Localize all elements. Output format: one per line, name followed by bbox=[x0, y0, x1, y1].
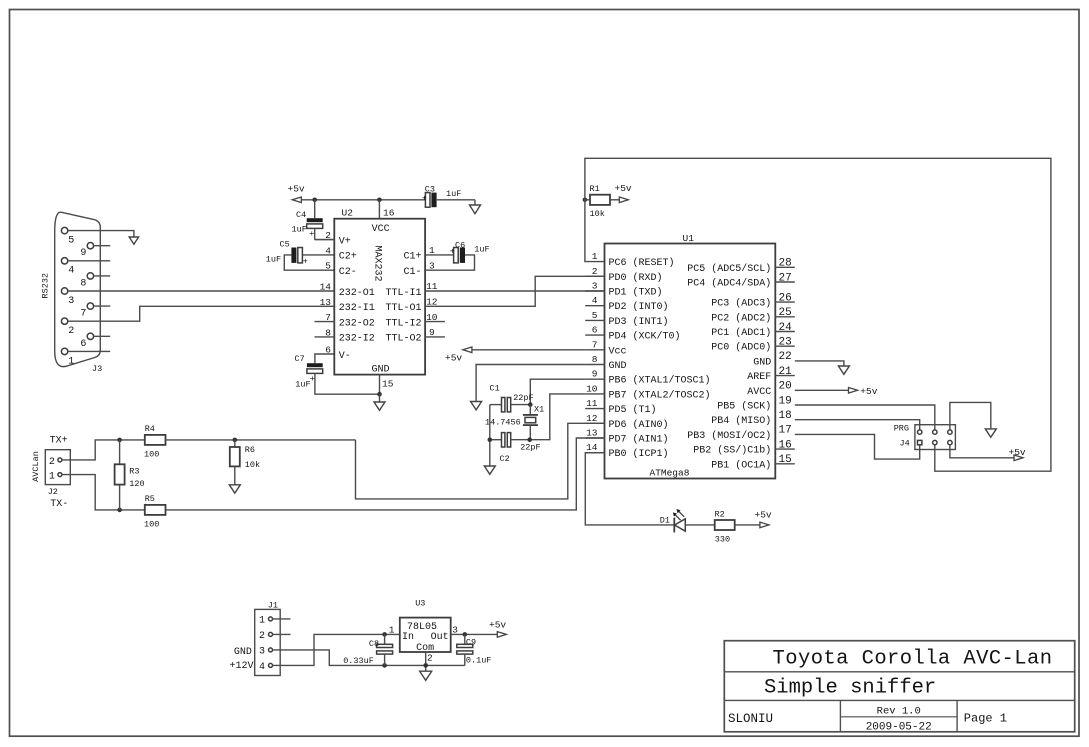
resistor R5 100 bbox=[144, 494, 166, 529]
svg-text:25: 25 bbox=[779, 307, 792, 319]
wire J1 pin2 stub bbox=[273, 633, 291, 635]
svg-text:Page 1: Page 1 bbox=[964, 712, 1007, 726]
capacitor C7 1uF bbox=[295, 354, 380, 394]
svg-text:26: 26 bbox=[779, 292, 792, 304]
svg-text:1: 1 bbox=[68, 356, 74, 367]
svg-text:PB4 (MISO): PB4 (MISO) bbox=[711, 415, 771, 427]
wire J3 pin4 stub bbox=[68, 260, 110, 262]
wire RESET net: U1 pin1 up over top and down right side to J4 bbox=[585, 158, 1051, 471]
svg-text:16: 16 bbox=[383, 208, 395, 219]
svg-text:Rev 1.0: Rev 1.0 bbox=[877, 705, 921, 717]
svg-text:23: 23 bbox=[779, 337, 792, 349]
svg-text:8: 8 bbox=[592, 354, 598, 365]
svg-text:2: 2 bbox=[259, 631, 265, 642]
svg-text:1uF: 1uF bbox=[446, 189, 461, 199]
resistor R3 120 bbox=[115, 440, 145, 510]
wire U1 PB6 to crystal node bbox=[530, 379, 585, 404]
capacitor C4 1uF bbox=[292, 200, 323, 240]
wire U1 AVCC pin20 to +5v bbox=[795, 389, 849, 391]
svg-text:1: 1 bbox=[592, 251, 598, 262]
svg-text:+12V: +12V bbox=[230, 661, 254, 672]
ground bbox=[374, 402, 385, 410]
capacitor C6 1uF with loop to pins C1+/C1- bbox=[425, 241, 490, 271]
capacitor C1 22pF bbox=[490, 384, 534, 412]
svg-text:232-O2: 232-O2 bbox=[339, 318, 375, 329]
wire J3 pin6 stub bbox=[94, 335, 111, 337]
svg-text:3: 3 bbox=[68, 296, 74, 307]
connector J1 bbox=[230, 601, 281, 676]
svg-text:+5v: +5v bbox=[445, 353, 462, 364]
+5v bbox=[1014, 455, 1023, 461]
ground bbox=[838, 366, 849, 374]
ground bbox=[420, 671, 432, 680]
led D1 bbox=[660, 509, 686, 532]
wire TX+ to U1 PD6 bbox=[356, 423, 605, 499]
node junction C8 top bbox=[382, 632, 387, 637]
wire D1 to R2 bbox=[685, 524, 714, 526]
svg-text:10: 10 bbox=[426, 312, 438, 323]
ground bbox=[229, 485, 240, 493]
svg-text:PB7 (XTAL2/TOSC2): PB7 (XTAL2/TOSC2) bbox=[609, 389, 711, 401]
ground bbox=[484, 466, 495, 474]
svg-text:7: 7 bbox=[592, 339, 598, 350]
svg-text:10: 10 bbox=[586, 383, 598, 394]
svg-text:3: 3 bbox=[592, 281, 598, 292]
node TX+ junction R3 top bbox=[117, 438, 122, 443]
capacitor C3 1uF bbox=[422, 185, 462, 208]
svg-text:2: 2 bbox=[325, 230, 331, 241]
wire J3 pin1 stub bbox=[68, 350, 110, 352]
svg-text:R2: R2 bbox=[715, 510, 725, 520]
svg-text:PD7 (AIN1): PD7 (AIN1) bbox=[609, 434, 669, 446]
wire J3 pin8 stub bbox=[94, 275, 111, 277]
svg-text:ATMega8: ATMega8 bbox=[650, 468, 690, 479]
wire J3 pin7 stub bbox=[94, 305, 111, 307]
svg-text:8: 8 bbox=[80, 278, 86, 289]
wire U1 PB7 to crystal node bbox=[530, 394, 586, 440]
svg-text:+: + bbox=[303, 256, 308, 266]
svg-text:PC1 (ADC1): PC1 (ADC1) bbox=[711, 327, 771, 339]
wire J4 +5v pin bbox=[950, 445, 1014, 458]
svg-text:U2: U2 bbox=[342, 208, 354, 219]
svg-text:5: 5 bbox=[592, 310, 598, 321]
svg-text:14: 14 bbox=[320, 282, 332, 293]
svg-text:PD1 (TXD): PD1 (TXD) bbox=[609, 287, 663, 299]
svg-text:PB1 (OC1A): PB1 (OC1A) bbox=[711, 459, 771, 471]
crystal X1 14.7456 bbox=[485, 405, 544, 440]
svg-text:C9: C9 bbox=[466, 637, 476, 647]
node TX- junction R3 bottom bbox=[117, 508, 122, 513]
+5v bbox=[497, 632, 506, 638]
capacitor C5 1uF with loop to pins C2+/C2- bbox=[266, 239, 335, 270]
wire U1 MISO pin18 to J4 bbox=[795, 420, 920, 430]
svg-text:15: 15 bbox=[779, 454, 792, 466]
title block bbox=[724, 641, 1074, 734]
ground bbox=[129, 237, 138, 244]
wire J1 pin3 GND rail bbox=[273, 650, 465, 666]
wire U2 pin15 GND bbox=[377, 375, 394, 402]
node junction R6 top bbox=[233, 438, 238, 443]
svg-text:C5: C5 bbox=[280, 239, 290, 249]
svg-text:13: 13 bbox=[586, 428, 598, 439]
svg-text:PD6 (AIN0): PD6 (AIN0) bbox=[609, 419, 669, 431]
wire J3 pin9 stub bbox=[94, 245, 111, 247]
svg-text:TTL-O1: TTL-O1 bbox=[385, 303, 421, 314]
svg-text:C6: C6 bbox=[455, 241, 465, 251]
svg-text:MAX232: MAX232 bbox=[371, 246, 382, 282]
svg-text:R3: R3 bbox=[129, 466, 139, 476]
svg-text:PC0 (ADC0): PC0 (ADC0) bbox=[711, 342, 771, 354]
ic U3 78L05 bbox=[389, 599, 459, 664]
svg-text:GND: GND bbox=[609, 361, 627, 372]
svg-text:J4: J4 bbox=[900, 438, 910, 448]
svg-text:7: 7 bbox=[325, 312, 331, 323]
svg-text:Toyota Corolla AVC-Lan: Toyota Corolla AVC-Lan bbox=[773, 648, 1053, 671]
wire C4 to U2 pin2 bbox=[315, 239, 335, 241]
+5v supply rail above U2 bbox=[301, 199, 425, 201]
svg-text:6: 6 bbox=[80, 339, 86, 350]
svg-text:AVCLan: AVCLan bbox=[31, 451, 41, 482]
svg-text:1uF: 1uF bbox=[474, 244, 489, 254]
svg-text:PC5 (ADC5/SCL): PC5 (ADC5/SCL) bbox=[687, 263, 771, 275]
svg-text:PD0 (RXD): PD0 (RXD) bbox=[609, 272, 663, 284]
svg-text:R6: R6 bbox=[245, 445, 255, 455]
svg-text:1uF: 1uF bbox=[292, 225, 307, 235]
svg-text:PRG: PRG bbox=[894, 423, 909, 433]
svg-text:PC6 (RESET): PC6 (RESET) bbox=[609, 257, 675, 269]
node XTAL2 junction bbox=[527, 437, 532, 442]
svg-text:PC4 (ADC4/SDA): PC4 (ADC4/SDA) bbox=[687, 278, 771, 290]
svg-text:6: 6 bbox=[325, 345, 331, 356]
svg-text:22pF: 22pF bbox=[513, 393, 533, 403]
svg-text:J2: J2 bbox=[48, 487, 58, 497]
svg-text:PB3 (MOSI/OC2): PB3 (MOSI/OC2) bbox=[687, 430, 771, 442]
svg-text:7: 7 bbox=[80, 309, 86, 320]
svg-text:SLONIU: SLONIU bbox=[728, 712, 773, 726]
svg-text:1: 1 bbox=[429, 245, 435, 256]
svg-text:4: 4 bbox=[592, 295, 598, 306]
svg-text:C2: C2 bbox=[500, 454, 510, 464]
svg-text:4: 4 bbox=[325, 245, 331, 256]
resistor R2 330 bbox=[715, 510, 760, 545]
svg-text:J3: J3 bbox=[92, 364, 102, 374]
svg-text:2: 2 bbox=[68, 326, 74, 337]
svg-text:GND: GND bbox=[753, 357, 771, 368]
svg-text:232-I1: 232-I1 bbox=[339, 303, 375, 314]
svg-text:C8: C8 bbox=[369, 639, 379, 649]
ic U1 ATMega8 bbox=[585, 233, 795, 479]
svg-text:PB2 (SS/)C1b): PB2 (SS/)C1b) bbox=[693, 445, 771, 457]
svg-text:+: + bbox=[422, 194, 427, 204]
wire J1 pin1 stub bbox=[273, 618, 291, 620]
node VCC junction pin16 bbox=[377, 198, 382, 203]
svg-text:PD2 (INT0): PD2 (INT0) bbox=[609, 301, 669, 313]
svg-text:TTL-I2: TTL-I2 bbox=[385, 318, 421, 329]
svg-text:PC3 (ADC3): PC3 (ADC3) bbox=[711, 298, 771, 310]
node VCC junction C4 bbox=[312, 198, 317, 203]
svg-text:V+: V+ bbox=[339, 236, 351, 247]
svg-text:TX+: TX+ bbox=[50, 436, 68, 447]
svg-text:11: 11 bbox=[586, 398, 598, 409]
svg-text:12: 12 bbox=[586, 413, 598, 424]
svg-text:U1: U1 bbox=[683, 233, 695, 244]
wire J3 pin2 to U2 232-I1 bbox=[68, 306, 335, 321]
svg-text:11: 11 bbox=[426, 281, 438, 292]
svg-text:9: 9 bbox=[80, 248, 86, 259]
svg-text:17: 17 bbox=[779, 425, 792, 437]
svg-text:V-: V- bbox=[339, 351, 351, 362]
svg-text:In: In bbox=[402, 632, 414, 643]
svg-text:GND: GND bbox=[234, 647, 252, 658]
svg-text:+5v: +5v bbox=[860, 386, 877, 397]
svg-text:21: 21 bbox=[779, 366, 793, 378]
svg-text:0.1uF: 0.1uF bbox=[466, 656, 492, 666]
svg-text:22: 22 bbox=[779, 351, 792, 363]
svg-text:C1-: C1- bbox=[403, 267, 421, 278]
svg-text:28: 28 bbox=[779, 258, 792, 270]
svg-text:+5v: +5v bbox=[1009, 447, 1026, 458]
wire U1 MOSI pin17 to J4 bbox=[795, 434, 920, 459]
svg-text:15: 15 bbox=[382, 379, 394, 390]
svg-text:3: 3 bbox=[429, 260, 435, 271]
+5v bbox=[619, 197, 628, 203]
ground bbox=[470, 205, 481, 214]
svg-text:+5v: +5v bbox=[615, 183, 632, 194]
svg-text:+: + bbox=[309, 229, 314, 239]
wire U2 TTL-O1 to U1 PD0 bbox=[425, 276, 604, 306]
svg-text:16: 16 bbox=[779, 439, 792, 451]
wire U1 GND pin22 to ground bbox=[795, 361, 844, 366]
svg-text:C4: C4 bbox=[296, 210, 306, 220]
svg-text:100: 100 bbox=[144, 450, 159, 460]
wire U1 GND pin8 to ground bbox=[476, 365, 585, 402]
svg-text:C1+: C1+ bbox=[403, 252, 421, 263]
svg-text:GND: GND bbox=[371, 364, 389, 375]
svg-text:22pF: 22pF bbox=[520, 443, 540, 453]
+5v bbox=[463, 347, 472, 353]
svg-text:8: 8 bbox=[325, 327, 331, 338]
svg-text:R1: R1 bbox=[590, 184, 600, 194]
svg-text:VCC: VCC bbox=[372, 224, 390, 235]
svg-text:1: 1 bbox=[389, 625, 395, 636]
svg-text:PC2 (ADC2): PC2 (ADC2) bbox=[711, 312, 771, 324]
svg-text:R4: R4 bbox=[145, 424, 155, 434]
svg-text:+5v: +5v bbox=[755, 509, 772, 520]
wire U3 Com pin2 to GND rail bbox=[425, 652, 427, 671]
svg-text:5: 5 bbox=[68, 236, 74, 247]
svg-text:5: 5 bbox=[325, 261, 331, 272]
svg-text:PD5 (T1): PD5 (T1) bbox=[609, 404, 657, 416]
svg-text:1: 1 bbox=[259, 616, 265, 627]
svg-text:X1: X1 bbox=[534, 405, 544, 415]
wire J1 pin4 +12V to U3 In bbox=[273, 634, 400, 665]
capacitor C9 0.1uF bbox=[457, 634, 492, 665]
wire TX- to U1 PD7 bbox=[166, 438, 605, 510]
svg-text:330: 330 bbox=[715, 534, 730, 544]
svg-text:PB0 (ICP1): PB0 (ICP1) bbox=[609, 448, 669, 460]
svg-text:4: 4 bbox=[68, 266, 74, 277]
svg-text:1uF: 1uF bbox=[295, 379, 310, 389]
resistor R6 10k bbox=[230, 440, 260, 485]
svg-text:2: 2 bbox=[592, 266, 598, 277]
svg-text:D1: D1 bbox=[660, 516, 670, 526]
svg-text:1uF: 1uF bbox=[266, 254, 281, 264]
svg-text:TX-: TX- bbox=[50, 499, 68, 510]
wire U3 Out to +5v bbox=[451, 633, 498, 635]
svg-text:6: 6 bbox=[592, 325, 598, 336]
svg-text:18: 18 bbox=[779, 410, 792, 422]
svg-text:232-O1: 232-O1 bbox=[339, 288, 375, 299]
svg-text:0.33uF: 0.33uF bbox=[343, 656, 374, 666]
resistor R4 100 bbox=[144, 424, 356, 460]
+5v bbox=[849, 388, 858, 394]
node junction C9 top bbox=[463, 632, 468, 637]
svg-text:Simple sniffer: Simple sniffer bbox=[764, 676, 936, 699]
svg-text:Vcc: Vcc bbox=[609, 346, 627, 357]
svg-text:100: 100 bbox=[144, 519, 159, 529]
svg-text:13: 13 bbox=[320, 297, 332, 308]
svg-text:TTL-O2: TTL-O2 bbox=[385, 334, 421, 345]
svg-text:PD3 (INT1): PD3 (INT1) bbox=[609, 316, 669, 328]
svg-text:4: 4 bbox=[259, 662, 265, 673]
svg-text:Out: Out bbox=[431, 632, 449, 643]
svg-text:2009-05-22: 2009-05-22 bbox=[866, 721, 932, 733]
wire U1 SCK pin19 to J4 bbox=[795, 405, 935, 430]
wire U1 Vcc pin7 to +5v bbox=[472, 349, 585, 351]
svg-text:PB5 (SCK): PB5 (SCK) bbox=[717, 401, 771, 413]
svg-text:AVCC: AVCC bbox=[747, 387, 771, 398]
connector J4 PRG bbox=[894, 423, 956, 449]
connector J2 AVCLan bbox=[31, 436, 70, 511]
wire J4 GND pin to ground bbox=[950, 402, 991, 430]
wire J3 pin5 to ground bbox=[68, 231, 134, 237]
wire J3 pin3 to U2 232-O1 bbox=[68, 290, 335, 292]
ground bbox=[985, 429, 996, 437]
node junction C8 bottom bbox=[382, 663, 387, 668]
capacitor C2 22pF bbox=[490, 433, 541, 464]
svg-text:120: 120 bbox=[129, 479, 144, 489]
svg-text:9: 9 bbox=[592, 369, 598, 380]
svg-text:10k: 10k bbox=[245, 460, 260, 470]
svg-text:2: 2 bbox=[427, 653, 433, 664]
svg-text:C1: C1 bbox=[490, 384, 500, 394]
svg-text:+5v: +5v bbox=[489, 620, 506, 631]
resistor R1 10k bbox=[583, 184, 620, 219]
svg-text:10k: 10k bbox=[590, 209, 605, 219]
wire J2 pin2 TX+ to R4 bbox=[62, 440, 145, 460]
svg-text:PB6 (XTAL1/TOSC1): PB6 (XTAL1/TOSC1) bbox=[609, 375, 711, 387]
connector J3 (DB9 RS232) bbox=[41, 212, 103, 374]
wire J2 pin1 TX- to R5 bbox=[62, 475, 145, 510]
svg-text:9: 9 bbox=[429, 327, 435, 338]
svg-text:27: 27 bbox=[779, 272, 792, 284]
svg-text:14: 14 bbox=[586, 442, 598, 453]
capacitor C8 0.33uF bbox=[343, 634, 392, 666]
svg-text:AREF: AREF bbox=[747, 372, 771, 383]
svg-text:J1: J1 bbox=[268, 601, 278, 611]
svg-text:R5: R5 bbox=[145, 494, 155, 504]
svg-text:C3: C3 bbox=[425, 185, 435, 195]
+5v bbox=[760, 522, 769, 528]
svg-text:C2-: C2- bbox=[339, 267, 357, 278]
svg-text:+5v: +5v bbox=[288, 184, 305, 195]
svg-text:PD4 (XCK/T0): PD4 (XCK/T0) bbox=[609, 331, 681, 343]
node XTAL1 junction bbox=[528, 402, 533, 407]
wire U1 PB0 to D1 bbox=[585, 453, 674, 525]
svg-text:2: 2 bbox=[49, 457, 55, 468]
ground bbox=[471, 402, 482, 410]
svg-text:1: 1 bbox=[49, 472, 55, 483]
svg-text:U3: U3 bbox=[415, 599, 425, 609]
svg-text:C2+: C2+ bbox=[339, 252, 357, 263]
svg-text:C7: C7 bbox=[295, 354, 305, 364]
svg-text:19: 19 bbox=[779, 395, 792, 407]
svg-text:RS232: RS232 bbox=[41, 273, 51, 299]
svg-text:TTL-I1: TTL-I1 bbox=[385, 288, 421, 299]
svg-text:24: 24 bbox=[779, 322, 793, 334]
wire crystal left rail to ground bbox=[489, 405, 491, 466]
wire rail to ground after C3 bbox=[474, 200, 476, 205]
ic U2 MAX232 bbox=[315, 200, 605, 375]
svg-text:20: 20 bbox=[779, 381, 792, 393]
svg-text:3: 3 bbox=[259, 647, 265, 658]
svg-text:232-I2: 232-I2 bbox=[339, 334, 375, 345]
